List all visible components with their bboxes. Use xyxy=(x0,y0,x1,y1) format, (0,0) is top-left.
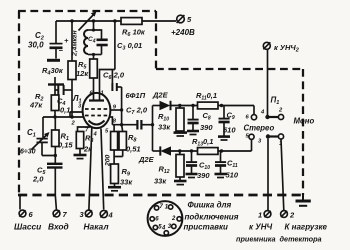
svg-text:Вход: Вход xyxy=(48,222,69,232)
ground under C9 xyxy=(218,137,230,140)
resistor R6 10k xyxy=(121,18,146,38)
tube pin labels xyxy=(71,91,117,138)
ground under C10 xyxy=(186,174,198,178)
capacitor C4 0,1 coupling xyxy=(55,85,72,115)
wire contact3 to terminal1 xyxy=(267,139,269,211)
svg-text:Д2Е: Д2Е xyxy=(152,91,169,100)
tube grid dashes row1 xyxy=(85,108,109,110)
ground under C2 xyxy=(47,59,60,62)
wire bottom row right xyxy=(218,139,252,151)
switch contact number labels xyxy=(246,108,284,148)
diode D2E bottom xyxy=(138,146,198,164)
connector pin numbers xyxy=(155,204,176,232)
variable tuning arrow xyxy=(79,14,95,31)
wire heater left xyxy=(89,128,92,210)
capacitor C8 390 xyxy=(188,104,214,132)
svg-text:1: 1 xyxy=(101,91,104,97)
svg-text:−: − xyxy=(59,46,64,55)
wire detector rail vertical xyxy=(152,106,154,152)
capacitor C7 2,0 xyxy=(126,106,153,130)
wire grid3 stub xyxy=(70,112,84,117)
enclosure dashed border left xyxy=(18,11,20,195)
svg-text:приемника: приемника xyxy=(236,235,276,244)
terminal 1 k UNCH xyxy=(258,211,271,220)
switch contact 3 xyxy=(266,134,270,138)
svg-text:4: 4 xyxy=(161,226,166,232)
svg-text:приставки: приставки xyxy=(184,223,229,232)
node pin9 xyxy=(120,108,123,111)
wire top row right xyxy=(218,106,254,115)
svg-text:детектора: детектора xyxy=(280,235,322,244)
svg-text:+240В: +240В xyxy=(171,28,195,37)
enclosure dashed border top xyxy=(18,10,156,12)
resistor R11 0,1 xyxy=(196,91,218,109)
svg-text:C7 2,0: C7 2,0 xyxy=(126,106,148,117)
node grid-R4 xyxy=(70,115,73,118)
tube grid dashes row2 xyxy=(85,115,109,117)
wire R4 bottom to grid net xyxy=(71,80,73,118)
svg-text:к УНЧ: к УНЧ xyxy=(249,223,272,232)
tube cathode xyxy=(89,121,105,125)
diode D2E top xyxy=(152,91,198,111)
wire C6 down to pin9 and pin8 node xyxy=(121,87,123,125)
svg-text:4: 4 xyxy=(108,211,114,220)
caption fishka xyxy=(184,201,239,232)
svg-text:2,4мкгн: 2,4мкгн xyxy=(72,30,79,57)
caption k nagruzke detektora xyxy=(280,223,328,244)
resistor R10 33k xyxy=(158,106,184,133)
ground under R9 xyxy=(108,187,121,191)
wire heater right xyxy=(101,129,104,210)
node bottom row R12 xyxy=(178,149,181,152)
capacitor C9 510 xyxy=(219,106,237,137)
switch contact 4 xyxy=(265,115,269,119)
svg-text:C6 2,0: C6 2,0 xyxy=(103,71,125,82)
wire +240V rail xyxy=(56,20,176,22)
wire grid net horizontal xyxy=(43,116,85,118)
capacitor C2 30,0 electrolytic xyxy=(28,21,69,59)
node C1 R1 C5 xyxy=(54,154,57,157)
svg-text:R6 10к: R6 10к xyxy=(122,28,146,39)
svg-text:Накал: Накал xyxy=(84,222,110,232)
svg-text:2,0: 2,0 xyxy=(32,175,44,184)
node top row R10 xyxy=(178,104,181,107)
svg-text:C3 0,01: C3 0,01 xyxy=(117,41,142,52)
ground under R3 xyxy=(74,155,87,159)
wire UNCH2 to switch contact4 xyxy=(267,50,269,116)
node rail-R4 xyxy=(70,19,73,22)
resistor R9 33k xyxy=(111,164,134,187)
switch contact 6 xyxy=(251,115,256,120)
svg-text:2: 2 xyxy=(171,216,176,222)
switch arm 4-2 xyxy=(268,116,279,118)
node rail-tank xyxy=(92,19,95,22)
svg-text:Фишка для: Фишка для xyxy=(188,201,232,210)
switch contact 1 xyxy=(278,134,283,139)
ground at enclosure bottom right xyxy=(296,193,311,206)
connector plug circle xyxy=(148,201,183,236)
svg-text:2: 2 xyxy=(289,211,295,220)
capacitor C5 2,0 xyxy=(32,156,63,210)
svg-text:R110,1: R110,1 xyxy=(196,91,217,102)
ground under C11 xyxy=(215,174,227,178)
enclosure dashed border middle horizontal xyxy=(156,68,303,70)
resistor R4 30k xyxy=(42,61,76,80)
switch arm 3-1 xyxy=(268,135,278,137)
enclosure dashed border bottom xyxy=(18,194,303,197)
terminal 5 +240V xyxy=(171,15,195,37)
svg-text:Стерео: Стерео xyxy=(244,124,275,133)
svg-text:47к: 47к xyxy=(29,101,43,110)
terminal to UNCH2 xyxy=(263,42,298,53)
connector pins xyxy=(150,205,181,235)
coil L 2,4mkgn xyxy=(72,21,102,57)
caption k UNCH priemnika xyxy=(236,223,276,244)
svg-text:33к: 33к xyxy=(158,123,171,132)
wire anode pin1 xyxy=(100,70,115,101)
wire pin9 lead xyxy=(110,109,121,111)
capacitor C11 510 xyxy=(215,151,239,180)
svg-text:6Ф1П: 6Ф1П xyxy=(126,91,146,100)
svg-text:R430к: R430к xyxy=(42,66,64,77)
ground under C8 xyxy=(187,131,199,135)
svg-text:0,1: 0,1 xyxy=(60,106,70,115)
svg-text:390: 390 xyxy=(200,123,213,132)
svg-text:+: + xyxy=(64,36,69,45)
svg-text:33к: 33к xyxy=(154,177,167,186)
wire pin8 lead xyxy=(110,117,137,125)
switch contact 2 xyxy=(278,114,283,119)
stub above R2 xyxy=(54,77,56,85)
resistor R8 0,51 xyxy=(114,125,141,157)
switch contact 5 xyxy=(249,134,254,139)
svg-text:к УНЧ2: к УНЧ2 xyxy=(274,43,299,54)
enclosure dashed border right upper xyxy=(155,11,157,69)
terminal 7 input xyxy=(48,210,69,232)
wire R4 feed xyxy=(71,21,73,61)
svg-text:К нагрузке: К нагрузке xyxy=(285,223,328,232)
svg-text:1: 1 xyxy=(258,211,262,220)
resistor R2 47k xyxy=(29,85,59,118)
capacitor C10 390 xyxy=(186,149,210,180)
svg-text:12к: 12к xyxy=(76,69,89,78)
wire R7 to R9 xyxy=(113,150,115,164)
tube anode plates xyxy=(89,99,104,101)
svg-text:6÷30: 6÷30 xyxy=(20,149,36,156)
svg-text:33к: 33к xyxy=(120,178,133,187)
svg-text:Моно: Моно xyxy=(294,117,315,126)
enclosure dashed border right lower xyxy=(302,69,304,195)
svg-text:30,0: 30,0 xyxy=(28,41,44,50)
resistor R7 200 xyxy=(105,125,118,167)
node top row C9 xyxy=(220,104,223,107)
resistor R5 12k xyxy=(76,59,97,78)
node pin8 C7 R8 xyxy=(120,123,123,126)
resistor R1 0,15 xyxy=(52,117,74,156)
capacitor C6 2,0 xyxy=(103,70,125,92)
svg-text:Д2Е: Д2Е xyxy=(138,155,155,164)
wire pin2 to R3 xyxy=(78,127,91,132)
node bottom row C11 xyxy=(220,149,223,152)
svg-text:подключения: подключения xyxy=(185,213,239,222)
resistor R12 33k xyxy=(154,151,184,186)
terminals 3 4 heater xyxy=(80,210,114,232)
junction bar R2 top xyxy=(48,83,64,85)
resistor R13 0,1 xyxy=(192,137,218,154)
wire R5 to anode pin6 xyxy=(93,78,95,100)
tube L1 envelope xyxy=(72,93,110,128)
node grid-R1 xyxy=(53,115,56,118)
node rail C7 xyxy=(151,123,154,126)
resistor R3 2k xyxy=(76,132,93,155)
node rail-R6 xyxy=(113,19,116,22)
wire contact1 to terminal2 xyxy=(281,139,284,210)
capacitor C4 tank xyxy=(88,30,108,59)
wire rail to anode junction xyxy=(114,21,116,70)
capacitor C1 variable 6-30 xyxy=(20,117,55,156)
ground under R12 xyxy=(174,181,187,185)
terminal 2 k nagruzke xyxy=(281,211,295,220)
svg-text:510: 510 xyxy=(223,126,236,135)
ground under R10 xyxy=(174,133,188,136)
svg-text:0,15: 0,15 xyxy=(58,141,73,150)
svg-text:Шасси: Шасси xyxy=(14,222,41,232)
svg-text:390: 390 xyxy=(197,171,210,180)
svg-text:0,51: 0,51 xyxy=(126,145,141,154)
svg-text:510: 510 xyxy=(226,171,239,180)
svg-text:R130,1: R130,1 xyxy=(192,137,213,148)
terminal 6 chassis xyxy=(14,195,41,232)
